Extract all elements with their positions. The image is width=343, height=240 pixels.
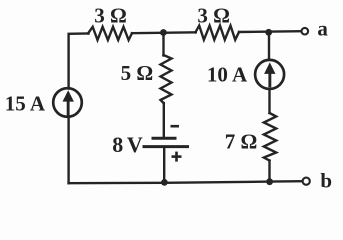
resistor R3 5ohm (vertical zigzag) bbox=[161, 55, 172, 103]
node junction dot top middle bbox=[160, 29, 167, 36]
battery negative (short) plate bbox=[152, 137, 177, 140]
resistor R1 3ohm (top left zigzag) bbox=[88, 27, 132, 40]
svg-text:8: 8 bbox=[112, 132, 123, 157]
svg-text:5 Ω: 5 Ω bbox=[121, 61, 154, 85]
wire between R1 and R2 through node bbox=[132, 31, 196, 34]
wire 7ohm to bottom rail bbox=[268, 161, 270, 183]
wire top-left segment bbox=[69, 34, 89, 89]
wire R2 to terminal a bbox=[239, 30, 301, 33]
svg-text:V: V bbox=[127, 132, 143, 157]
svg-text:15 A: 15 A bbox=[5, 92, 46, 116]
current source I2 10A circle bbox=[255, 60, 284, 89]
terminal b open circle bbox=[303, 178, 310, 185]
node junction dot bottom middle bbox=[161, 179, 168, 186]
wire left rail lower bbox=[67, 118, 69, 184]
wire 10A source to 7ohm bbox=[268, 90, 270, 114]
battery V1 8V plates bbox=[143, 126, 190, 161]
wire middle branch upper bbox=[162, 33, 164, 56]
current source I2 arrow bbox=[264, 62, 275, 87]
wire 5ohm to battery bbox=[163, 103, 165, 137]
battery plus sign bbox=[172, 155, 182, 158]
node junction dot bottom right bbox=[266, 178, 273, 185]
battery minus sign bbox=[171, 125, 180, 128]
resistor R4 7ohm (vertical zigzag) bbox=[264, 113, 276, 161]
wire bottom rail bbox=[69, 181, 302, 183]
svg-text:3 Ω: 3 Ω bbox=[197, 4, 230, 28]
wire battery to bottom rail bbox=[163, 148, 165, 183]
current source I1 15A circle bbox=[53, 88, 82, 117]
svg-text:a: a bbox=[317, 16, 328, 40]
battery positive (long) plate bbox=[143, 145, 190, 148]
svg-text:10 A: 10 A bbox=[207, 62, 248, 86]
resistor R2 3ohm (top right zigzag) bbox=[195, 26, 239, 40]
svg-text:b: b bbox=[320, 168, 332, 192]
current source I1 arrow bbox=[63, 90, 74, 115]
node junction dot top right bbox=[265, 29, 272, 36]
wire right branch upper bbox=[268, 32, 270, 60]
terminal a open circle bbox=[302, 28, 309, 35]
svg-text:7 Ω: 7 Ω bbox=[225, 130, 258, 154]
svg-text:3 Ω: 3 Ω bbox=[94, 3, 127, 27]
